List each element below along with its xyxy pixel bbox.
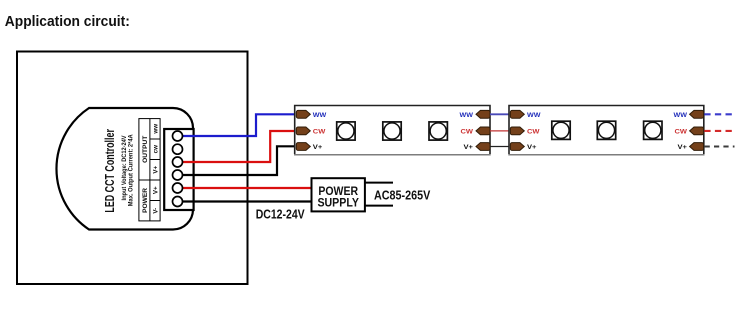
svg-text:SUPPLY: SUPPLY	[317, 197, 359, 210]
svg-text:POWER: POWER	[142, 188, 149, 213]
svg-text:V+: V+	[153, 165, 160, 173]
strip2 left pad WW	[510, 110, 524, 118]
svg-text:WW: WW	[527, 112, 541, 119]
strip1 right pad V+	[476, 143, 490, 151]
svg-text:V+: V+	[153, 186, 160, 194]
strip1 right pad CW	[476, 127, 490, 135]
enclosure box around controller	[17, 52, 248, 285]
LED strip 1	[294, 106, 491, 155]
terminal 2	[173, 144, 183, 154]
terminal 6	[173, 197, 183, 207]
LED D3	[429, 122, 447, 140]
continuation dashed wire V+ (black)	[705, 145, 735, 147]
interconnect wire V+ (black)	[490, 146, 509, 148]
svg-text:WW: WW	[460, 112, 474, 119]
LED strip 2	[508, 106, 704, 155]
wire WW output (blue)	[178, 114, 297, 136]
controller U1 body outline	[56, 108, 193, 230]
svg-text:WW: WW	[313, 112, 327, 119]
wire V+ power input (red)	[178, 187, 312, 189]
LED D1	[337, 122, 355, 140]
svg-text:V-: V-	[153, 208, 160, 214]
LED D2	[383, 122, 401, 140]
interconnect wire CW (red)	[490, 130, 509, 132]
terminal 4	[173, 170, 183, 180]
svg-text:CW: CW	[461, 128, 474, 135]
strip2 right pad V+	[690, 143, 704, 151]
terminal table grid	[139, 119, 160, 221]
svg-text:V+: V+	[313, 144, 323, 151]
LED D4	[552, 121, 570, 139]
continuation dashed wire WW (blue)	[704, 113, 735, 115]
strip2 right pad CW	[690, 127, 704, 135]
svg-text:V+: V+	[527, 144, 537, 151]
power supply PS1	[312, 178, 365, 211]
svg-text:DC12-24V: DC12-24V	[256, 207, 305, 222]
continuation dashed wire CW (red)	[704, 130, 735, 132]
terminal 5	[173, 183, 183, 193]
AC line L	[365, 182, 393, 184]
strip2 left pad V+	[510, 143, 524, 151]
svg-text:Application circuit:: Application circuit:	[5, 13, 130, 30]
strip2 left pad CW	[510, 127, 524, 135]
svg-text:cw: cw	[153, 145, 160, 153]
svg-text:V+: V+	[678, 144, 688, 151]
terminal 1	[173, 131, 183, 141]
terminal 3	[173, 157, 183, 167]
svg-text:ww: ww	[153, 124, 160, 135]
strip1 left pad V+	[296, 143, 310, 151]
interconnect wire WW (blue)	[490, 113, 509, 115]
terminal block J1	[164, 129, 193, 210]
strip2 right pad WW	[690, 110, 704, 118]
wire V+ output (black)	[178, 146, 297, 175]
svg-text:Input Voltage: DC12-24V: Input Voltage: DC12-24V	[122, 136, 128, 201]
wire V- power input (black)	[178, 200, 312, 202]
svg-text:V+: V+	[464, 144, 474, 151]
strip1 left pad CW	[296, 127, 310, 135]
strip1 right pad WW	[476, 110, 490, 118]
svg-text:WW: WW	[674, 112, 688, 119]
svg-text:CW: CW	[527, 128, 540, 135]
svg-text:CW: CW	[675, 128, 688, 135]
svg-text:AC85-265V: AC85-265V	[374, 187, 431, 202]
LED D6	[644, 121, 662, 139]
svg-text:Max. Output Current: 2*4A: Max. Output Current: 2*4A	[129, 134, 135, 207]
svg-text:CW: CW	[313, 128, 326, 135]
AC line N	[365, 205, 393, 207]
strip1 left pad WW	[296, 110, 310, 118]
LED D5	[597, 121, 615, 139]
svg-text:OUTPUT: OUTPUT	[142, 136, 149, 163]
wire CW output (red)	[178, 131, 297, 162]
svg-text:LED CCT Controller: LED CCT Controller	[103, 129, 117, 213]
